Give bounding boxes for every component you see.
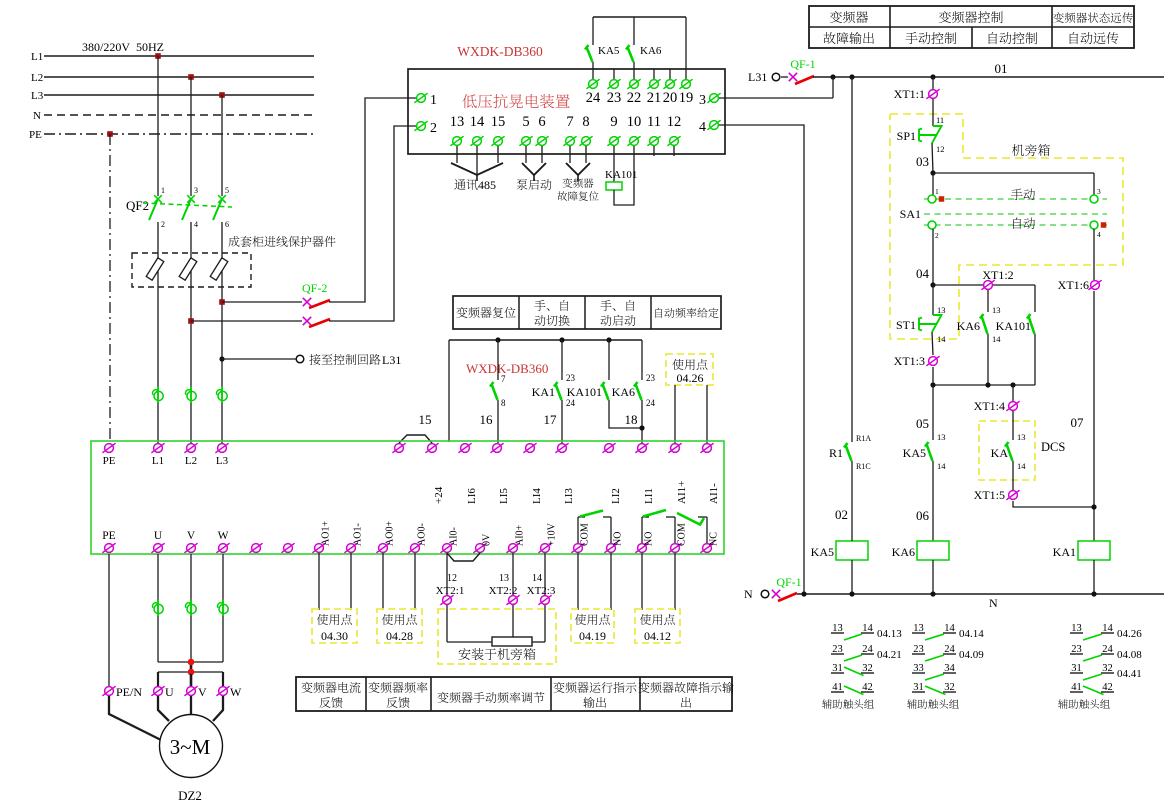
fault relay contact NO-COM-NC <box>641 517 643 543</box>
terminal XT1:1 <box>932 77 934 90</box>
label manual <box>1011 189 1035 200</box>
junction N KA1 <box>1091 591 1096 596</box>
junction 01 rung 02 <box>849 74 854 79</box>
breaker QF2 linkage <box>143 203 232 207</box>
converter terminal +24 <box>425 443 438 453</box>
svg-text:KA5: KA5 <box>903 446 926 460</box>
svg-text:14: 14 <box>532 573 542 584</box>
svg-text:W: W <box>218 530 229 542</box>
svg-text:XT1:3: XT1:3 <box>894 354 925 368</box>
junction L3 tap <box>219 92 225 98</box>
svg-text:13: 13 <box>937 305 946 315</box>
contact KA6 <box>633 17 635 45</box>
wire SA1-4 down <box>1093 229 1095 280</box>
junction PE tap <box>107 131 113 137</box>
svg-text:L31: L31 <box>382 353 401 367</box>
svg-text:L31: L31 <box>748 70 767 84</box>
svg-text:380/220V: 380/220V <box>82 40 130 54</box>
usage point 04.28 box <box>382 553 384 610</box>
svg-text:KA5: KA5 <box>598 45 620 57</box>
svg-text:LI1: LI1 <box>643 488 655 504</box>
junction 01 rung XT1:1 <box>930 74 935 79</box>
svg-text:XT1:6: XT1:6 <box>1058 278 1089 292</box>
svg-text:KA101: KA101 <box>605 169 637 181</box>
label machine-side box <box>1012 144 1050 156</box>
contact KA101 auto <box>1034 285 1036 312</box>
label comm RS485 <box>454 179 477 190</box>
svg-text:03: 03 <box>916 154 929 169</box>
legend table middle <box>453 296 721 329</box>
SA1 contact 1 <box>928 195 936 203</box>
label low-voltage anti-sag device <box>462 94 569 108</box>
wire XT1:5 to 07 <box>1013 501 1094 507</box>
svg-text:3: 3 <box>1097 187 1101 196</box>
wire W phase <box>222 554 224 662</box>
terminal XT2:3 <box>544 553 546 642</box>
svg-text:0V: 0V <box>482 533 493 546</box>
net N bus <box>797 593 1164 595</box>
terminal XT1:4 <box>1012 385 1014 401</box>
contact KA5 rung06 <box>932 385 934 440</box>
label pump start <box>517 179 552 190</box>
svg-text:SP1: SP1 <box>897 129 916 143</box>
junction N KA6 <box>930 591 935 596</box>
converter input terminal L1 <box>151 443 164 453</box>
converter terminal AO0- <box>408 543 421 553</box>
wire AI1+ feed <box>674 385 676 443</box>
converter terminal 0V <box>473 543 486 553</box>
svg-text:QF2: QF2 <box>126 198 149 213</box>
legend table bottom <box>296 677 732 711</box>
svg-text:11: 11 <box>936 115 944 125</box>
usage point 04.30 box <box>318 553 320 610</box>
svg-text:LI5: LI5 <box>498 488 510 504</box>
contact KA in DCS <box>1012 411 1014 440</box>
junction QF-2 pole2 on L2 <box>188 318 194 324</box>
terminal 23 <box>613 69 615 79</box>
svg-text:21: 21 <box>647 90 662 106</box>
svg-text:KA101: KA101 <box>567 385 602 399</box>
svg-text:+10V: +10V <box>547 522 558 546</box>
terminal XT2:2 <box>512 553 514 637</box>
svg-text:24: 24 <box>586 90 601 106</box>
svg-text:KA6: KA6 <box>957 319 980 333</box>
CT on W <box>217 600 228 617</box>
junction N KA5 <box>849 591 854 596</box>
run relay contact COM-NO <box>577 517 579 543</box>
svg-text:24: 24 <box>566 398 576 408</box>
svg-text:13: 13 <box>992 305 1001 315</box>
wire L2 to QF-2 pole2 <box>191 320 302 322</box>
svg-text:L3: L3 <box>31 90 44 102</box>
label converter fault reset <box>563 178 594 188</box>
frequency converter outline <box>91 441 724 554</box>
svg-text:WXDK-DB360: WXDK-DB360 <box>466 361 548 376</box>
converter terminal AI1+ <box>668 443 681 453</box>
wire rail into converter <box>448 340 450 442</box>
svg-text:04.14: 04.14 <box>959 628 984 640</box>
svg-text:N: N <box>989 596 998 610</box>
svg-text:L2: L2 <box>31 72 43 84</box>
svg-text:4: 4 <box>1097 230 1101 239</box>
converter terminal spare <box>281 543 294 553</box>
wire AI1- feed <box>706 385 708 443</box>
svg-text:5: 5 <box>522 114 529 130</box>
wire U phase <box>157 554 159 662</box>
svg-text:10: 10 <box>627 114 642 130</box>
svg-text:DCS: DCS <box>1041 440 1065 454</box>
legend table top right <box>809 6 1134 48</box>
svg-text:14: 14 <box>937 334 946 344</box>
svg-text:WXDK-DB360: WXDK-DB360 <box>457 44 543 59</box>
converter terminal spare <box>249 543 262 553</box>
svg-text:R1: R1 <box>829 446 843 460</box>
svg-text:PE: PE <box>102 530 115 542</box>
svg-text:KA101: KA101 <box>996 319 1031 333</box>
svg-text:15: 15 <box>419 412 432 427</box>
svg-text:23: 23 <box>646 373 656 383</box>
terminal XT2:1 <box>446 553 448 642</box>
contact KA1 (manual/auto switch) <box>559 337 564 342</box>
svg-text:15: 15 <box>491 114 506 130</box>
svg-text:04.19: 04.19 <box>579 629 606 643</box>
svg-text:LI6: LI6 <box>466 488 478 504</box>
svg-text:8: 8 <box>501 398 506 408</box>
svg-text:22: 22 <box>627 90 642 106</box>
top rail above device <box>593 16 686 18</box>
wires terminals 13 14 15 merge <box>456 146 458 163</box>
converter terminal COM <box>668 543 681 553</box>
converter terminal LI3 <box>555 443 568 453</box>
svg-text:9: 9 <box>610 114 617 130</box>
motor terminal W <box>216 686 229 696</box>
svg-text:1: 1 <box>430 93 437 108</box>
svg-text:XT1:4: XT1:4 <box>974 399 1005 413</box>
contact KA101 (start) <box>606 337 611 342</box>
wire terminal 3 out <box>719 97 833 99</box>
svg-text:13: 13 <box>937 432 946 442</box>
converter input terminal PE <box>102 443 115 453</box>
svg-text:11: 11 <box>647 114 661 130</box>
converter terminal LI2 <box>602 443 615 453</box>
svg-text:14: 14 <box>1017 461 1026 471</box>
contact WXDK 7-8 reset <box>495 337 500 342</box>
svg-text:PE: PE <box>29 129 42 141</box>
svg-text:14: 14 <box>937 461 946 471</box>
wire L2 drop mid <box>190 222 192 443</box>
svg-text:AO1+: AO1+ <box>321 521 332 546</box>
label cabinet protection parts <box>228 236 335 247</box>
svg-text:KA6: KA6 <box>640 45 662 57</box>
svg-text:L1: L1 <box>31 51 43 63</box>
svg-text:PE/N: PE/N <box>116 685 142 699</box>
svg-text:13: 13 <box>1017 432 1026 442</box>
label to control circuit L31 <box>309 354 380 365</box>
svg-text:18: 18 <box>625 412 638 427</box>
svg-text:13: 13 <box>499 573 509 584</box>
svg-text:L3: L3 <box>216 455 229 467</box>
wires terminals 5 6 merge <box>525 146 527 163</box>
svg-text:COM: COM <box>677 523 688 546</box>
wire 04 branch <box>933 284 1035 286</box>
svg-text:LI2: LI2 <box>610 488 622 504</box>
svg-text:KA6: KA6 <box>612 385 635 399</box>
wires terminals 7 8 merge <box>569 146 571 163</box>
label installed in machine-side box <box>459 648 536 660</box>
CT on U <box>152 600 163 617</box>
SA1 contact 4 <box>1090 221 1098 229</box>
svg-text:3: 3 <box>194 186 198 195</box>
svg-text:6: 6 <box>538 114 545 130</box>
CT on L3 <box>216 387 227 404</box>
relay coil KA101 (reset output) <box>613 146 615 182</box>
svg-text:2: 2 <box>935 231 939 240</box>
svg-text:2: 2 <box>430 121 437 136</box>
converter terminal AO0+ <box>376 543 389 553</box>
device WXDK-DB360 anti-sag unit box <box>408 69 725 154</box>
svg-text:V: V <box>198 685 207 699</box>
SA1 contact 2 <box>928 221 936 229</box>
junction KA101/KA6 <box>639 425 644 430</box>
junction 07/XT1:5 <box>1091 504 1096 509</box>
svg-text:07: 07 <box>1071 415 1085 430</box>
wire L3 drop upper <box>221 95 223 196</box>
converter terminal NC <box>700 543 713 553</box>
potentiometer manual speed <box>447 641 492 643</box>
svg-text:NC: NC <box>709 532 720 546</box>
terminal 1 <box>414 93 427 103</box>
svg-text:AI0+: AI0+ <box>515 524 526 546</box>
wire L2 drop upper <box>190 77 192 196</box>
svg-text:KA6: KA6 <box>892 545 915 559</box>
fuse F3 <box>210 258 228 280</box>
motor M 3-phase <box>160 715 223 778</box>
DCS dashed box <box>979 421 1035 480</box>
svg-text:7: 7 <box>566 114 573 130</box>
junction L2 tap <box>188 74 194 80</box>
converter terminal AI1- <box>700 443 713 453</box>
svg-text:1: 1 <box>161 186 165 195</box>
svg-text:06: 06 <box>916 508 930 523</box>
svg-text:QF-1: QF-1 <box>790 57 815 71</box>
usage point 04.19 box <box>577 553 579 610</box>
fuse F2 <box>179 258 197 280</box>
svg-text:XT1:1: XT1:1 <box>894 87 925 101</box>
svg-text:COM: COM <box>580 523 591 546</box>
svg-text:LI3: LI3 <box>563 488 575 504</box>
svg-text:LI4: LI4 <box>531 488 543 504</box>
svg-text:12: 12 <box>667 114 682 130</box>
svg-text:NO: NO <box>644 532 655 546</box>
converter terminal spare <box>392 443 405 453</box>
svg-text:U: U <box>165 685 174 699</box>
wire L3 to QF-2 pole1 <box>222 301 302 303</box>
rung 02 <box>851 77 853 442</box>
converter terminal NO <box>604 543 617 553</box>
converter terminal AI0- <box>440 543 453 553</box>
junction L1 tap <box>155 53 161 59</box>
junction QF-2 pole1 on L3 <box>219 299 225 305</box>
svg-text:2: 2 <box>161 220 165 229</box>
svg-text:PE: PE <box>103 455 116 467</box>
svg-text:R1C: R1C <box>856 462 871 471</box>
svg-text:23: 23 <box>607 90 622 106</box>
svg-text:4: 4 <box>194 220 198 229</box>
svg-text:3: 3 <box>699 93 706 108</box>
svg-text:KA1: KA1 <box>1053 545 1076 559</box>
svg-text:20: 20 <box>663 90 678 106</box>
svg-text:AI1-: AI1- <box>708 483 720 504</box>
svg-text:04.30: 04.30 <box>321 629 348 643</box>
svg-text:16: 16 <box>480 412 494 427</box>
cable merge bars <box>158 661 223 663</box>
converter terminal AO1- <box>344 543 357 553</box>
stub terminal 12 <box>673 146 675 156</box>
usage point 04.26 box <box>666 354 713 385</box>
svg-text:01: 01 <box>995 61 1008 76</box>
svg-text:L2: L2 <box>185 455 197 467</box>
junction 01 to terminal3 <box>830 74 835 79</box>
converter terminal LI5 <box>490 443 503 453</box>
svg-text:14: 14 <box>470 114 485 130</box>
svg-text:04.21: 04.21 <box>877 649 902 661</box>
motor terminal V <box>184 686 197 696</box>
svg-text:W: W <box>230 685 242 699</box>
wire 07 <box>1093 291 1095 541</box>
label auto <box>1013 218 1035 229</box>
svg-text:DZ2: DZ2 <box>178 788 202 803</box>
wire 03 branch <box>933 172 1094 174</box>
svg-text:3~M: 3~M <box>170 735 211 759</box>
svg-text:12: 12 <box>936 144 945 154</box>
control rail node 16/17/18 <box>449 339 642 341</box>
svg-text:04.41: 04.41 <box>1117 668 1142 680</box>
svg-text:6: 6 <box>225 220 229 229</box>
junction N t4 <box>801 591 806 596</box>
svg-text:+24: +24 <box>433 486 445 504</box>
machine-side box (potentiometer) <box>438 609 556 664</box>
svg-text:17: 17 <box>544 412 558 427</box>
svg-text:V: V <box>187 530 196 542</box>
svg-text:13: 13 <box>450 114 465 130</box>
svg-text:12: 12 <box>447 573 457 584</box>
junction 05 bus <box>933 384 1035 386</box>
wire QF-2 pole1 to device terminal 1 <box>329 98 416 302</box>
svg-text:QF-2: QF-2 <box>302 281 327 295</box>
wire terminal 4 to N <box>719 125 804 592</box>
svg-text:NO: NO <box>613 532 624 546</box>
wire 01 to terminal 3 <box>832 77 834 98</box>
svg-text:05: 05 <box>916 416 929 431</box>
svg-text:04.26: 04.26 <box>1117 628 1142 640</box>
svg-text:7: 7 <box>501 374 506 384</box>
svg-text:04.28: 04.28 <box>386 629 413 643</box>
wire PE to motor <box>108 554 110 686</box>
motor terminal U <box>151 686 164 696</box>
wire SA1-2 down <box>932 229 934 285</box>
wire rail to terminal 19 <box>685 17 687 79</box>
svg-text:AI1+: AI1+ <box>676 481 688 504</box>
terminal 21 <box>653 69 655 79</box>
svg-text:19: 19 <box>679 90 694 106</box>
svg-text:23: 23 <box>566 373 576 383</box>
svg-text:50HZ: 50HZ <box>136 40 164 54</box>
svg-text:KA5: KA5 <box>811 545 834 559</box>
svg-text:XT1:2: XT1:2 <box>982 268 1013 282</box>
terminal 20 <box>669 69 671 79</box>
wire L3 drop mid <box>221 222 223 443</box>
svg-text:04: 04 <box>916 266 930 281</box>
CT on V <box>185 600 196 617</box>
svg-text:24: 24 <box>646 398 656 408</box>
wire PE drop (dash-dot) <box>109 134 111 443</box>
fuse group dashed box <box>132 253 251 287</box>
motor terminal PE/N <box>102 686 115 696</box>
converter input terminal L2 <box>184 443 197 453</box>
contact KA6 (start) <box>641 340 643 380</box>
net 01 <box>813 76 1164 78</box>
terminal 24 <box>586 79 599 89</box>
svg-text:4: 4 <box>699 120 706 135</box>
wire QF-2 pole2 to device terminal 2 <box>329 126 416 321</box>
thermal switch ST1 <box>932 285 934 315</box>
contact R1 <box>844 443 852 461</box>
svg-text:N: N <box>33 110 41 122</box>
fuse F1 <box>146 258 164 280</box>
pushbutton SP1 <box>932 99 934 126</box>
SA1 contact 3 <box>1090 195 1098 203</box>
svg-text:04.08: 04.08 <box>1117 649 1142 661</box>
wire L1 drop upper <box>157 56 159 196</box>
machine-side box boundary <box>890 114 1123 339</box>
svg-text:02: 02 <box>835 507 848 522</box>
converter terminal +10V <box>538 543 551 553</box>
usage point 04.12 box <box>641 553 643 610</box>
svg-text:485: 485 <box>478 178 496 192</box>
svg-text:04.26: 04.26 <box>677 371 704 385</box>
svg-text:1: 1 <box>935 187 939 196</box>
svg-text:SA1: SA1 <box>900 207 921 221</box>
converter terminal LI1 <box>635 443 648 453</box>
stub terminal 11 <box>653 146 655 156</box>
svg-text:KA1: KA1 <box>532 385 555 399</box>
converter terminal AO1+ <box>312 543 325 553</box>
CT on L2 <box>185 387 196 404</box>
converter terminal NO <box>635 543 648 553</box>
svg-text:04.13: 04.13 <box>877 628 902 640</box>
svg-text:04.09: 04.09 <box>959 649 984 661</box>
svg-text:14: 14 <box>992 334 1001 344</box>
converter terminal LI6 <box>458 443 471 453</box>
svg-text:04.12: 04.12 <box>644 629 671 643</box>
svg-text:AO0-: AO0- <box>417 523 428 546</box>
wire L1 drop mid <box>157 222 159 443</box>
converter terminal LI4 <box>523 443 536 453</box>
svg-text:N: N <box>744 587 753 601</box>
contact KA6 auto <box>987 290 989 312</box>
breaker QF-2 pole 2 <box>303 317 311 325</box>
svg-text:U: U <box>154 530 163 542</box>
terminal 2 <box>414 121 427 131</box>
converter terminal AI0+ <box>506 543 519 553</box>
svg-text:8: 8 <box>582 114 589 130</box>
wire V phase <box>190 554 192 662</box>
svg-text:AO0+: AO0+ <box>385 521 396 546</box>
svg-text:5: 5 <box>225 186 229 195</box>
svg-text:KA: KA <box>991 446 1009 460</box>
node L31 control tap <box>219 356 224 361</box>
breaker QF-2 pole 1 <box>303 298 311 306</box>
